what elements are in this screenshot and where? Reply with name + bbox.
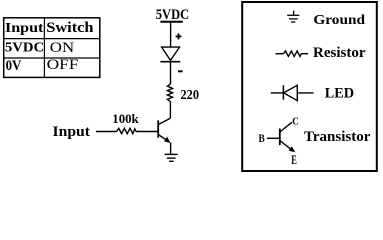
svg-text:Transistor: Transistor [304, 129, 371, 145]
LED D1 cathode bar [160, 61, 180, 63]
plus label [176, 33, 182, 39]
table header Switch [46, 20, 93, 36]
wire resistor to base [136, 131, 158, 133]
svg-text:Input: Input [53, 124, 91, 140]
svg-text:E: E [291, 154, 297, 167]
svg-text:ON: ON [50, 40, 75, 56]
legend Transistor text [304, 129, 371, 145]
LED D1 triangle [162, 47, 180, 60]
value label 100k [112, 112, 138, 126]
legend LED text [325, 85, 354, 101]
power rail bar [160, 21, 182, 23]
table header Input [5, 20, 44, 35]
table cell 0V [6, 58, 22, 74]
resistor R2 100k zigzag [117, 128, 137, 133]
table cell ON [50, 40, 75, 56]
legend transistor base bar [279, 129, 281, 146]
resistor R1 220 zigzag [167, 84, 172, 102]
legend Ground text [313, 12, 365, 27]
wire emitter to ground [170, 143, 172, 155]
transistor Q1 base bar [157, 120, 159, 137]
legend transistor pin C label [292, 116, 299, 128]
value label 220 [181, 87, 200, 102]
svg-text:100k: 100k [112, 112, 138, 126]
wire LED cathode to resistor [170, 62, 172, 84]
svg-text:5VDC: 5VDC [156, 7, 189, 23]
legend transistor emitter diagonal with arrow [280, 141, 295, 153]
svg-text:0V: 0V [6, 58, 22, 74]
svg-text:Ground: Ground [313, 12, 365, 27]
svg-text:Resistor: Resistor [313, 45, 366, 61]
Input label [53, 124, 91, 140]
node 5VDC label [156, 7, 189, 23]
legend transistor pin E label [291, 154, 297, 167]
wire resistor to collector [169, 102, 171, 119]
legend Resistor text [313, 45, 366, 61]
minus label [178, 70, 183, 72]
truth table frame [3, 17, 100, 77]
legend ground symbol [287, 11, 299, 23]
legend box [242, 2, 377, 171]
svg-text:5VDC: 5VDC [5, 40, 44, 55]
svg-text:B: B [259, 132, 265, 145]
wire power to LED anode [170, 22, 172, 47]
table cell OFF [47, 57, 79, 73]
legend transistor base wire [267, 137, 280, 139]
svg-text:Switch: Switch [46, 20, 93, 36]
wire input to resistor [96, 131, 117, 133]
svg-text:C: C [292, 116, 299, 128]
transistor Q1 emitter diagonal with arrow [158, 135, 170, 144]
svg-text:OFF: OFF [47, 57, 79, 73]
svg-text:Input: Input [5, 20, 44, 35]
transistor Q1 collector diagonal [158, 118, 170, 125]
svg-text:LED: LED [325, 85, 354, 101]
table cell 5VDC [5, 40, 44, 55]
legend transistor collector diagonal [280, 122, 292, 132]
legend LED symbol [271, 85, 314, 100]
legend transistor pin B label [259, 132, 265, 145]
ground symbol [165, 154, 178, 161]
legend resistor symbol [276, 51, 309, 56]
svg-text:220: 220 [181, 87, 200, 102]
